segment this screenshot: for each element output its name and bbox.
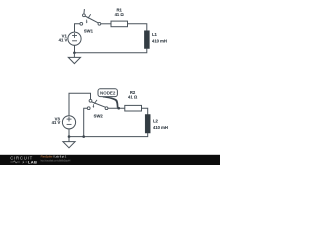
svg-text:NODE2: NODE2 — [100, 91, 116, 96]
switch SW1 arm — [85, 16, 98, 23]
logo lightning — [22, 161, 24, 164]
node NODE2 junction — [117, 107, 120, 110]
switch SW2 throw terminal A — [89, 99, 92, 102]
switch SW2 throw terminal C — [87, 107, 90, 110]
node NODE2 tag — [98, 89, 117, 97]
svg-text:410 mH: 410 mH — [153, 125, 168, 130]
wire V3 bottom stem — [68, 129, 70, 137]
inductor L2 — [145, 115, 150, 134]
junction node top circuit — [73, 52, 76, 55]
ground top circuit — [68, 53, 80, 64]
wire R1 to L1 — [128, 24, 147, 31]
svg-text:41 V: 41 V — [52, 120, 61, 125]
svg-text:L1: L1 — [152, 32, 158, 37]
resistor R2 — [125, 105, 142, 111]
logo waveform squiggle — [10, 161, 20, 163]
wire SW2 pole to R2 — [108, 107, 125, 109]
node NODE2 leader — [103, 96, 119, 108]
wire L2 to bottom rail — [69, 133, 148, 137]
junction node bottom rail at source — [68, 135, 71, 138]
inductor L1 — [144, 31, 149, 49]
ground bottom circuit — [63, 137, 75, 148]
switch SW1 toggle arrow — [86, 20, 88, 24]
switch SW1 throw terminal A — [83, 14, 86, 17]
voltage source V3 — [62, 116, 75, 129]
junction node bottom rail at switch stub — [82, 135, 85, 138]
switch SW1 handle tick — [88, 14, 91, 18]
svg-text:41 Ω: 41 Ω — [115, 12, 125, 17]
wire V1 top to SW1 — [75, 24, 81, 32]
wire L1 to bottom rail — [74, 49, 146, 53]
switch SW1 throw terminal C — [80, 22, 83, 25]
switch SW2 arm — [92, 102, 106, 107]
switch SW1 upper throw stub — [83, 9, 86, 14]
svg-text:FlexSpike / Lab 6 pt 1: FlexSpike / Lab 6 pt 1 — [41, 155, 67, 159]
resistor R1 — [111, 21, 128, 27]
switch SW2 handle tick — [94, 100, 97, 104]
svg-text:41 Ω: 41 Ω — [128, 95, 138, 100]
voltage source V1 — [68, 32, 81, 45]
svg-text:L2: L2 — [153, 118, 159, 123]
wire SW2 unused throw to bottom rail — [84, 108, 88, 136]
switch SW1 pole terminal B — [98, 22, 101, 25]
svg-text:http://circuitlab.com/c6bk6z5d: http://circuitlab.com/c6bk6z5dqvk4 — [41, 159, 71, 163]
svg-text:SW1: SW1 — [84, 29, 94, 34]
wire V1 bottom stem — [74, 45, 76, 53]
footer bar — [0, 155, 220, 165]
wire SW1 to R1 — [101, 23, 111, 25]
svg-text:410 mH: 410 mH — [152, 39, 167, 44]
switch SW2 pole terminal B — [105, 107, 108, 110]
svg-text:LAB: LAB — [28, 160, 37, 165]
svg-text:SW2: SW2 — [94, 114, 104, 119]
wire R2 to L2 — [142, 108, 148, 114]
wire V3 top to SW2 upper throw — [69, 93, 91, 116]
switch SW2 toggle arrow — [93, 104, 95, 108]
svg-text:41 V: 41 V — [59, 38, 68, 43]
